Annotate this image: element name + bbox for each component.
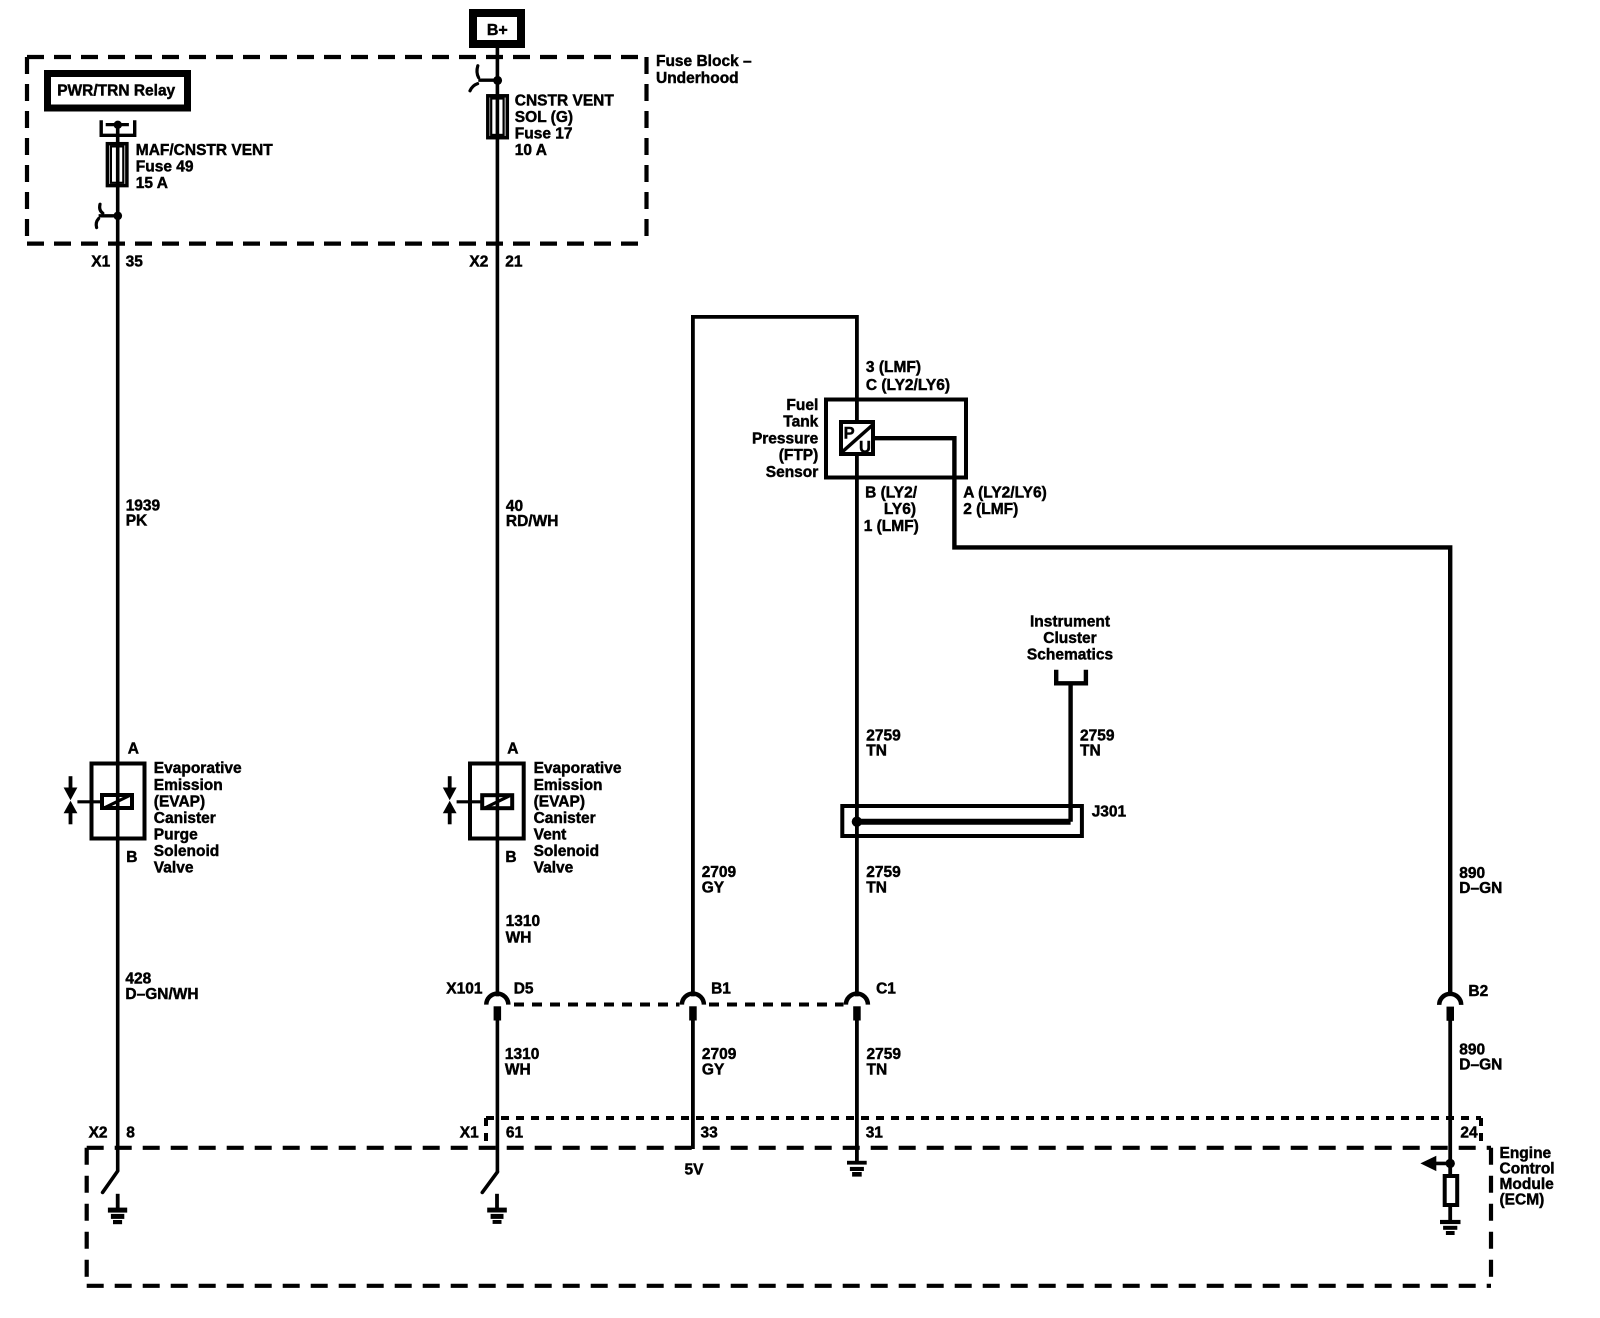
ECM pin 24 input arrow [1420,1156,1436,1171]
connector pass-through arc B2 [1439,994,1461,1005]
svg-text:(EVAP): (EVAP) [534,793,585,810]
FTP sensor P/U transducer symbol [841,422,873,454]
svg-text:B: B [126,849,137,866]
wire: 2709 GY below B1 connector to ECM 5V pin 33 [691,1021,695,1150]
svg-text:Emission: Emission [154,777,223,794]
svg-text:D–GN: D–GN [1459,880,1502,897]
svg-text:U: U [859,439,871,457]
svg-text:Fuse 49: Fuse 49 [136,158,194,175]
svg-text:Solenoid: Solenoid [534,843,599,860]
connector pass-through arc C1 [846,994,868,1005]
svg-text:SOL (G): SOL (G) [515,109,573,126]
label Fuel Tank Pressure (FTP) Sensor [752,397,819,481]
junction dot at J301 [852,817,862,827]
svg-text:Engine: Engine [1500,1145,1552,1162]
svg-text:Underhood: Underhood [656,70,739,87]
svg-text:X1: X1 [460,1124,479,1141]
svg-text:X2: X2 [469,253,488,270]
wire: instrument cluster drop 2759 TN, x=1070.6 [1068,685,1072,822]
relay K: PWR/TRN Relay box [48,74,188,109]
svg-text:35: 35 [126,253,144,270]
relay contact receptacle symbol below PWR/TRN relay [101,120,135,135]
connector pin B2 terminal [1447,1007,1455,1021]
ECM internal driver switch for pin 8 [103,1171,118,1192]
ground inside ECM below pin 61 switch [495,1194,499,1210]
svg-text:RD/WH: RD/WH [506,513,559,530]
svg-text:CNSTR VENT: CNSTR VENT [515,92,615,109]
svg-text:Fuse Block –: Fuse Block – [656,53,752,70]
power node B+ box [473,13,521,44]
svg-text:Pressure: Pressure [752,430,819,447]
in-line connector hook on B+ feed at y=80 [478,78,497,81]
svg-text:Canister: Canister [154,810,216,827]
svg-text:GY: GY [702,879,725,896]
svg-text:J301: J301 [1092,804,1127,821]
svg-text:Purge: Purge [154,826,198,843]
svg-text:Tank: Tank [783,414,818,431]
wire: PWR/TRN relay output, circuit 1939 PK, column x=117.7 [116,125,120,1172]
connector pass-through arc B1 [682,994,704,1005]
svg-text:10 A: 10 A [515,142,547,159]
svg-text:D–GN/WH: D–GN/WH [125,986,198,1003]
svg-text:Schematics: Schematics [1027,647,1113,664]
ground inside ECM at pin 31 [847,1161,867,1165]
svg-text:21: 21 [505,253,523,270]
svg-text:TN: TN [1080,743,1101,760]
solenoid valve: EVAP canister purge solenoid valve box [92,764,145,839]
pull-up resistor inside ECM [1445,1176,1458,1205]
svg-text:33: 33 [701,1124,719,1141]
svg-text:(FTP): (FTP) [779,447,819,464]
svg-text:C1: C1 [876,981,896,998]
svg-text:Solenoid: Solenoid [154,843,219,860]
splice pack J301 box [842,806,1082,836]
vent solenoid coil [482,795,512,808]
connector pin D5 terminal [494,1006,502,1020]
vent valve symbol (two triangles) [448,776,452,789]
svg-text:Module: Module [1500,1176,1555,1193]
purge solenoid coil [102,795,132,808]
connector pass-through arc D5 [486,994,508,1005]
solenoid valve: EVAP canister vent solenoid valve box [470,764,524,839]
wire: FTP sensor signal output, 890 D-GN run to B2, x=1450.2 [875,438,1450,992]
svg-text:Valve: Valve [534,860,574,877]
svg-text:Emission: Emission [534,777,603,794]
svg-text:D5: D5 [514,981,534,998]
svg-text:X2: X2 [89,1124,108,1141]
svg-text:TN: TN [866,879,887,896]
svg-text:C (LY2/LY6): C (LY2/LY6) [866,377,950,394]
fuse F17: CNSTR VENT SOL (G) Fuse 17 10 A [488,96,508,138]
connector pin B1 terminal [689,1006,697,1020]
svg-text:TN: TN [866,743,887,760]
wire: 2709 GY column, top link to FTP sensor, x=692.9 [693,317,857,997]
wire: B+ feed / circuit 40 RD-WH then 1310 WH, column x=497.4 [496,47,500,996]
svg-text:WH: WH [506,930,532,947]
svg-text:A: A [507,740,518,757]
svg-text:Canister: Canister [534,810,596,827]
svg-text:TN: TN [867,1061,888,1078]
svg-text:Evaporative: Evaporative [534,760,622,777]
fuse block underhood dashed box [27,57,647,244]
in-line connector hook on relay output at y=215.8 [99,214,118,217]
svg-text:B1: B1 [711,981,731,998]
svg-text:P: P [844,425,855,443]
svg-text:Vent: Vent [534,826,567,843]
wire: 2759 TN from FTP sensor through J301 to C1, x=856.9 [855,456,859,996]
svg-text:Control: Control [1500,1160,1555,1177]
svg-text:(EVAP): (EVAP) [154,793,205,810]
purge valve symbol (two triangles) [69,776,73,789]
wire: 1310 WH below X101 connector [496,1021,500,1173]
svg-text:1 (LMF): 1 (LMF) [864,518,919,535]
J301 internal bus [857,819,1071,825]
svg-text:B+: B+ [487,22,508,39]
svg-text:2 (LMF): 2 (LMF) [963,501,1018,518]
svg-text:X1: X1 [91,253,110,270]
wire: 890 D-GN below B2 connector into ECM pin 24 [1448,1021,1452,1177]
svg-text:B (LY2/: B (LY2/ [865,484,918,501]
svg-text:Sensor: Sensor [766,464,819,481]
svg-text:GY: GY [702,1061,725,1078]
ECM internal driver switch for pin 61 [482,1172,497,1192]
svg-text:428: 428 [125,970,151,987]
ECM connector X1 dotted boundary [486,1118,1481,1146]
svg-text:Evaporative: Evaporative [154,760,242,777]
ground inside ECM below resistor [1448,1205,1452,1221]
svg-text:(ECM): (ECM) [1500,1191,1545,1208]
wire: 2759 TN below C1 connector to ECM pin 31 ground [855,1021,859,1163]
svg-text:Cluster: Cluster [1043,630,1096,647]
svg-text:1310: 1310 [506,913,540,930]
fuse F49: MAF/CNSTR VENT Fuse 49 15 A [107,144,127,186]
svg-text:A: A [128,740,139,757]
svg-text:LY6): LY6) [884,501,916,518]
svg-text:8: 8 [126,1124,135,1141]
ground inside ECM below pin 8 switch [116,1194,120,1210]
svg-text:D–GN: D–GN [1459,1056,1502,1073]
svg-text:31: 31 [866,1124,884,1141]
svg-text:X101: X101 [446,981,483,998]
svg-text:B: B [505,849,516,866]
svg-text:WH: WH [505,1061,531,1078]
connector X101 dashed line [514,1003,844,1007]
connector pin C1 terminal [853,1006,861,1020]
ECM dashed box [87,1148,1491,1286]
svg-text:PWR/TRN Relay: PWR/TRN Relay [57,82,175,99]
svg-text:MAF/CNSTR VENT: MAF/CNSTR VENT [136,142,273,159]
svg-text:3 (LMF): 3 (LMF) [866,359,921,376]
svg-text:Valve: Valve [154,860,194,877]
sensor B: Fuel Tank Pressure (FTP) Sensor box [826,400,966,478]
svg-text:15 A: 15 A [136,175,168,192]
svg-text:5V: 5V [685,1161,705,1178]
svg-text:24: 24 [1460,1124,1478,1141]
svg-text:Fuse 17: Fuse 17 [515,126,573,143]
svg-text:Instrument: Instrument [1030,614,1110,631]
svg-text:61: 61 [506,1124,524,1141]
svg-text:A (LY2/LY6): A (LY2/LY6) [963,484,1047,501]
svg-text:Fuel: Fuel [786,397,818,414]
svg-text:B2: B2 [1468,983,1488,1000]
junction dot at ECM pin 24 [1446,1159,1455,1168]
svg-text:PK: PK [126,513,148,530]
